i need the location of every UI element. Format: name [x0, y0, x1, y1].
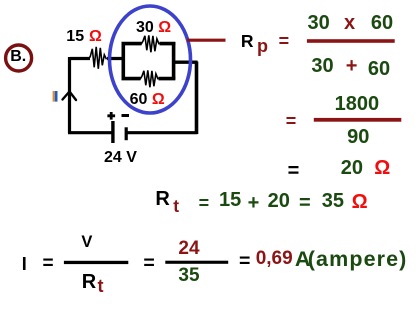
wire parallel-exit — [173, 61, 198, 64]
wire bottom-left horizontal — [68, 131, 113, 134]
fraction bar V/Rt — [64, 261, 128, 264]
fraction bar 24/35 — [165, 261, 228, 264]
fraction bar 30x60 / 30+60 — [307, 39, 395, 43]
battery plus sign — [107, 112, 115, 120]
equals 1800/90 — [286, 112, 297, 130]
parallel box left vertical — [122, 42, 126, 79]
denominator 30 + 60 — [311, 56, 333, 76]
fraction bar 1800/90 — [314, 118, 402, 122]
result — [239, 252, 250, 272]
label 60 ohm — [130, 92, 165, 108]
parallel box right vertical — [172, 42, 176, 79]
label B. — [10, 49, 26, 65]
label 24 V — [104, 150, 137, 166]
wire right vertical — [195, 62, 199, 135]
wire left vertical — [68, 57, 71, 133]
wire bottom-right horizontal — [126, 131, 198, 134]
battery B1 negative plate — [125, 127, 128, 140]
blue ellipse around parallel section — [110, 6, 191, 113]
formula I = V/Rt — [22, 255, 27, 273]
current arrow — [63, 92, 77, 101]
label 15 ohm — [66, 29, 102, 45]
circle around B — [6, 45, 32, 71]
dark red pointer line to Rp — [187, 39, 226, 42]
fraction 24/35 — [178, 239, 199, 258]
battery B1 positive plate — [111, 121, 114, 143]
wire left-top horizontal — [70, 57, 124, 60]
resistor R3 60ohm zigzag — [140, 70, 158, 87]
formula Rp — [241, 33, 254, 51]
formula Rt — [155, 189, 169, 209]
node I label (blue with orange fringe) — [53, 91, 55, 102]
resistor R2 30ohm zigzag — [141, 35, 159, 52]
battery minus sign — [122, 114, 130, 117]
parallel box top wire — [122, 42, 176, 46]
equals 20 ohm — [288, 161, 300, 181]
parallel box bottom wire — [122, 77, 176, 81]
label 30 ohm — [136, 20, 171, 36]
resistor R1 15ohm zigzag — [89, 47, 107, 69]
numerator 30 x 60 — [308, 13, 330, 33]
